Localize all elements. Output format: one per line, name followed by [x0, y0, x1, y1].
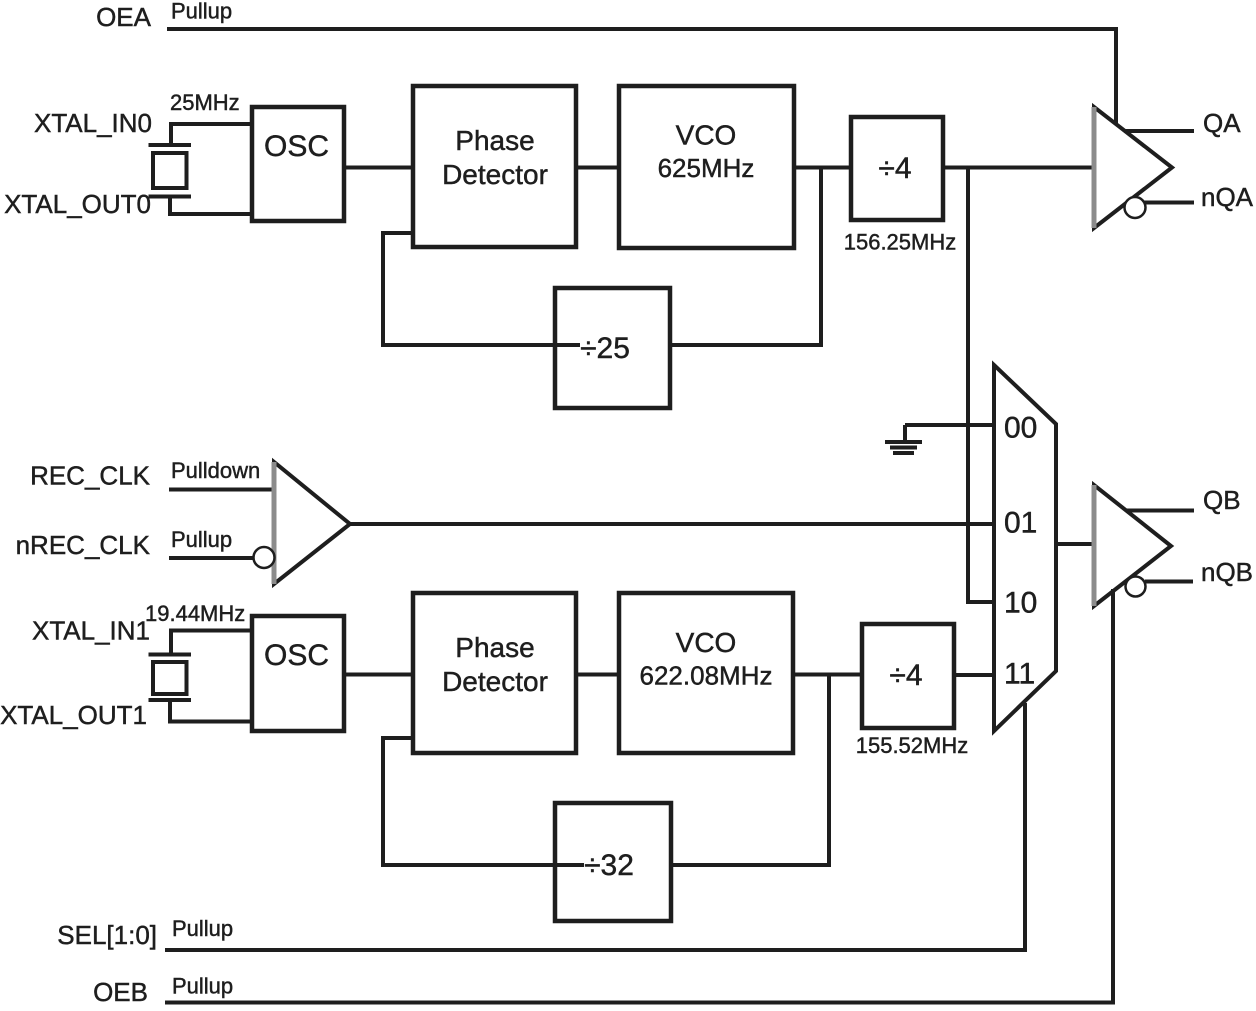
- svg-text:OEA: OEA: [96, 2, 152, 32]
- wire feedback loop A right: [670, 168, 821, 346]
- divider /25: [555, 288, 670, 408]
- wire phase detector to VCO1: [576, 166, 619, 170]
- svg-text:155.52MHz: 155.52MHz: [856, 733, 969, 758]
- wire feedback loop B right: [671, 675, 829, 866]
- wire VCO1 to divider /4: [794, 166, 851, 170]
- wire feedback loop B left: [383, 738, 584, 865]
- VCO2 622.08MHz: [619, 593, 793, 753]
- phase detector U1: [413, 86, 576, 247]
- svg-text:Pullup: Pullup: [172, 916, 233, 941]
- wire SEL to mux select: [165, 703, 1025, 950]
- wire XTAL_IN0: [171, 124, 252, 145]
- svg-text:XTAL_IN1: XTAL_IN1: [32, 616, 150, 646]
- divider /4 B: [862, 624, 954, 728]
- VCO1 625MHz: [619, 86, 794, 248]
- crystal X0: [149, 145, 192, 197]
- svg-text:19.44MHz: 19.44MHz: [145, 601, 245, 626]
- wire OEA net: [167, 29, 1116, 129]
- svg-text:25MHz: 25MHz: [170, 90, 240, 115]
- oscillator OSC0: [252, 107, 344, 221]
- divider /32: [555, 803, 671, 921]
- inversion bubble nQB: [1126, 577, 1146, 597]
- wire XTAL_OUT1: [170, 700, 252, 722]
- svg-text:Phase: Phase: [455, 632, 534, 663]
- svg-text:Pullup: Pullup: [172, 974, 233, 999]
- svg-text:nQA: nQA: [1201, 182, 1254, 212]
- svg-text:÷4: ÷4: [889, 659, 922, 692]
- wire VCO2 to divider /4 B: [793, 673, 862, 677]
- svg-text:Pullup: Pullup: [171, 0, 232, 24]
- wire nREC_CLK: [169, 556, 253, 560]
- svg-text:÷25: ÷25: [580, 332, 630, 365]
- svg-text:nREC_CLK: nREC_CLK: [16, 530, 151, 560]
- svg-text:nQB: nQB: [1201, 557, 1253, 587]
- wire QA output: [1124, 129, 1194, 133]
- oscillator OSC1: [252, 616, 344, 731]
- svg-text:Phase: Phase: [455, 125, 534, 156]
- svg-text:VCO: VCO: [676, 627, 737, 658]
- inversion bubble nQA: [1125, 197, 1146, 218]
- svg-text:622.08MHz: 622.08MHz: [640, 661, 773, 691]
- svg-text:÷4: ÷4: [878, 152, 911, 185]
- svg-text:OEB: OEB: [93, 977, 148, 1007]
- wire OSC1 to phase detector 2: [344, 673, 413, 677]
- wire feedback loop A left: [383, 233, 580, 345]
- svg-text:REC_CLK: REC_CLK: [30, 461, 151, 491]
- wire XTAL_IN1: [171, 631, 252, 655]
- svg-text:VCO: VCO: [676, 120, 737, 151]
- divider /4 A: [851, 117, 943, 220]
- wire divider /4 A to buffer QA: [943, 166, 1096, 170]
- svg-text:01: 01: [1004, 507, 1037, 540]
- wire nQB output: [1145, 580, 1193, 584]
- svg-text:XTAL_OUT0: XTAL_OUT0: [4, 189, 151, 219]
- svg-text:÷32: ÷32: [584, 849, 634, 882]
- wire buffer output to mux input 01: [350, 522, 994, 526]
- output buffer QA: [1094, 107, 1172, 228]
- svg-text:Detector: Detector: [442, 159, 548, 190]
- svg-text:Pulldown: Pulldown: [171, 458, 260, 483]
- phase detector U2: [413, 593, 576, 753]
- svg-text:625MHz: 625MHz: [658, 153, 755, 183]
- svg-text:00: 00: [1004, 412, 1037, 445]
- wire phase detector 2 to VCO2: [576, 673, 619, 677]
- wire OSC0 to phase detector: [344, 166, 413, 170]
- wire divider /4 B to mux input 11: [954, 673, 994, 677]
- wire REC_CLK: [169, 488, 274, 492]
- wire divider /4 A to mux input 10: [968, 168, 994, 603]
- crystal X1: [149, 655, 192, 701]
- wire ground to mux input 00: [905, 423, 994, 427]
- output buffer QB: [1094, 485, 1171, 606]
- wire nQA output: [1145, 201, 1195, 205]
- inversion bubble nREC_CLK: [254, 547, 275, 568]
- svg-text:QA: QA: [1203, 108, 1241, 138]
- svg-text:OSC: OSC: [264, 130, 329, 163]
- multiplexer MUX: [994, 365, 1056, 731]
- svg-text:XTAL_IN0: XTAL_IN0: [34, 108, 152, 138]
- input buffer REC_CLK: [274, 462, 350, 584]
- wire XTAL_OUT0: [170, 197, 252, 215]
- svg-text:11: 11: [1004, 658, 1035, 691]
- svg-text:10: 10: [1004, 587, 1037, 620]
- wire mux output to buffer QB: [1056, 542, 1098, 546]
- svg-text:Detector: Detector: [442, 666, 548, 697]
- svg-text:156.25MHz: 156.25MHz: [844, 230, 957, 255]
- svg-text:SEL[1:0]: SEL[1:0]: [57, 920, 157, 950]
- svg-text:Pullup: Pullup: [171, 527, 232, 552]
- wire QB output: [1126, 509, 1194, 513]
- wire OEB to buffer QB enable: [165, 589, 1113, 1003]
- svg-text:OSC: OSC: [264, 639, 329, 672]
- svg-text:XTAL_OUT1: XTAL_OUT1: [0, 700, 147, 730]
- ground symbol: [885, 425, 922, 453]
- svg-text:QB: QB: [1203, 485, 1241, 515]
